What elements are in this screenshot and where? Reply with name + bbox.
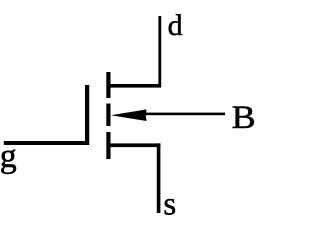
transistor M1 channel segment (source side) — [106, 132, 110, 159]
wire source vertical — [157, 143, 161, 213]
transistor M1 channel segment (body, middle) — [106, 104, 110, 127]
svg-text:s: s — [163, 187, 176, 223]
svg-text:g: g — [0, 138, 17, 175]
arrowhead body arrow pointing into channel — [111, 109, 147, 121]
wire body (arrow shaft to B) — [140, 113, 225, 116]
transistor M1 channel segment (drain side) — [106, 72, 110, 98]
wire source horizontal — [108, 143, 160, 147]
wire drain horizontal — [108, 84, 161, 88]
transistor M1 gate plate — [85, 85, 89, 145]
wire drain vertical — [158, 16, 161, 88]
svg-text:d: d — [168, 9, 183, 42]
wire gate horizontal — [4, 141, 89, 145]
svg-text:B: B — [232, 100, 256, 136]
